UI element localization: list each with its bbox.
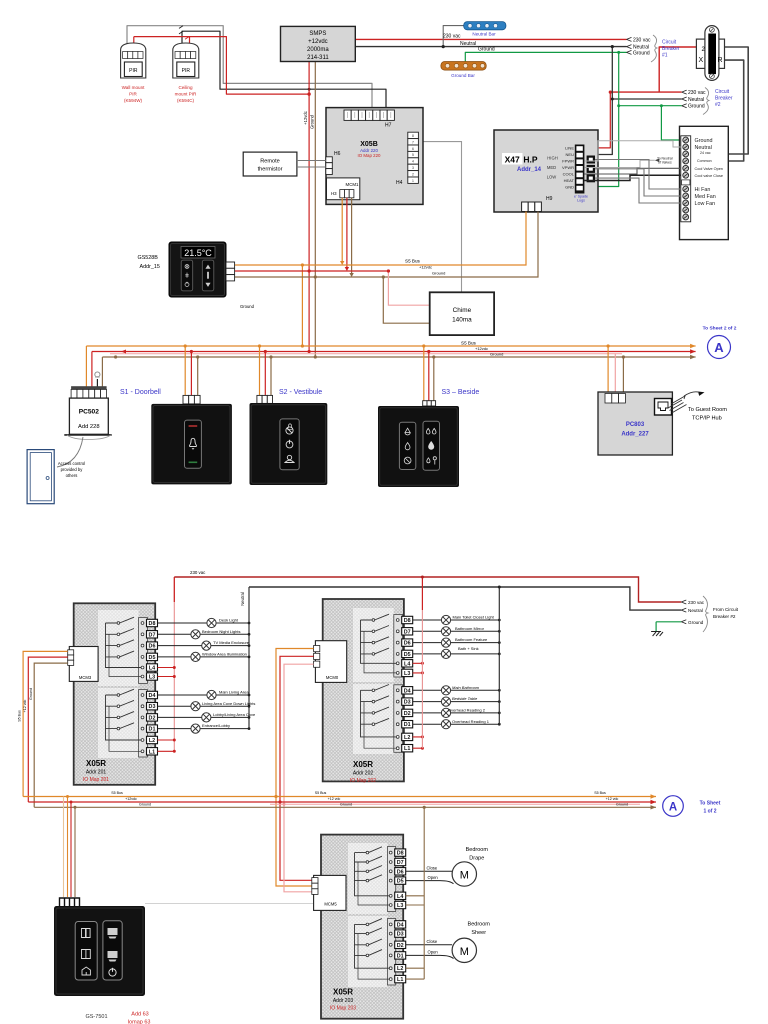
svg-text:Breaker: Breaker — [662, 46, 680, 52]
svg-text:Breaker #2: Breaker #2 — [713, 614, 736, 619]
svg-text:+12vdc: +12vdc — [475, 346, 488, 351]
svg-text:Sheer: Sheer — [471, 930, 486, 936]
svg-text:21.5°C: 21.5°C — [184, 248, 212, 258]
svg-text:+12 vdc: +12 vdc — [606, 797, 619, 801]
svg-text:X05R: X05R — [353, 760, 373, 769]
svg-text:D4: D4 — [397, 922, 404, 928]
svg-text:#2: #2 — [715, 102, 721, 108]
svg-text:Ground: Ground — [688, 104, 705, 110]
svg-text:S5 Bus: S5 Bus — [17, 710, 21, 722]
svg-text:H6: H6 — [334, 151, 341, 157]
svg-text:S5 Bus: S5 Bus — [405, 258, 421, 263]
svg-text:D8: D8 — [397, 851, 404, 857]
svg-text:D7: D7 — [149, 632, 156, 638]
svg-text:L2: L2 — [404, 735, 410, 741]
svg-text:MCM3: MCM3 — [79, 675, 92, 680]
svg-text:HIGH: HIGH — [547, 156, 557, 161]
svg-text:Bathroom Mirror: Bathroom Mirror — [455, 626, 485, 631]
svg-text:HEAT: HEAT — [564, 178, 575, 183]
svg-text:S2 - Vestibule: S2 - Vestibule — [279, 389, 322, 396]
svg-text:L3: L3 — [404, 671, 410, 677]
svg-text:Overhead Reading 1: Overhead Reading 1 — [452, 719, 490, 724]
svg-text:Neutral: Neutral — [460, 41, 476, 47]
svg-text:Ground: Ground — [432, 271, 445, 276]
svg-text:LINE: LINE — [565, 146, 574, 151]
svg-text:Add 63: Add 63 — [131, 1012, 148, 1018]
svg-text:MCM5: MCM5 — [324, 902, 337, 907]
svg-text:Ground: Ground — [490, 352, 503, 357]
svg-text:4: 4 — [412, 160, 414, 164]
svg-text:2: 2 — [412, 172, 414, 176]
svg-text:M: M — [460, 870, 469, 882]
svg-text:Hi Fan: Hi Fan — [695, 187, 711, 193]
svg-text:6: 6 — [412, 147, 414, 151]
svg-text:S5 Bus: S5 Bus — [461, 340, 477, 345]
svg-text:To Guest Room: To Guest Room — [688, 407, 727, 413]
svg-text:From Circuit: From Circuit — [713, 607, 739, 612]
svg-text:1 of 2: 1 of 2 — [703, 809, 716, 815]
svg-text:L4: L4 — [404, 661, 410, 667]
svg-text:Bedroom Night Lights: Bedroom Night Lights — [202, 629, 240, 634]
svg-text:D7: D7 — [404, 629, 411, 635]
svg-text:PC803: PC803 — [626, 422, 645, 428]
svg-text:provided by: provided by — [61, 467, 84, 472]
svg-text:D1: D1 — [404, 722, 411, 728]
svg-text:Common: Common — [697, 159, 712, 163]
svg-text:Ground: Ground — [240, 304, 255, 309]
svg-text:D7: D7 — [397, 860, 404, 866]
svg-text:Low Fan: Low Fan — [695, 201, 716, 207]
svg-text:+12vdc: +12vdc — [303, 111, 308, 125]
svg-text:MCM0: MCM0 — [326, 675, 339, 680]
svg-text:GS528B: GS528B — [138, 255, 159, 261]
svg-text:L4: L4 — [149, 666, 155, 672]
svg-text:Addr 201: Addr 201 — [86, 770, 107, 776]
svg-text:Neutral: Neutral — [688, 608, 703, 613]
svg-text:Add 228: Add 228 — [78, 424, 100, 430]
svg-text:214-311: 214-311 — [307, 55, 329, 61]
svg-text:R: R — [718, 57, 723, 64]
svg-text:Neutral: Neutral — [240, 592, 245, 606]
svg-text:S5 Bus: S5 Bus — [315, 791, 327, 795]
svg-text:Close: Close — [427, 939, 438, 944]
svg-text:L2: L2 — [149, 738, 155, 744]
svg-text:Bathroom Feature: Bathroom Feature — [455, 637, 488, 642]
svg-text:PC502: PC502 — [79, 409, 99, 416]
svg-text:Ground: Ground — [29, 688, 33, 700]
svg-text:mount PIR: mount PIR — [175, 92, 197, 97]
svg-text:D1: D1 — [149, 727, 156, 733]
svg-text:Breaker: Breaker — [715, 96, 733, 102]
svg-text:Ground: Ground — [310, 114, 315, 129]
svg-text:A: A — [669, 802, 677, 814]
svg-text:TV Media Enclosure: TV Media Enclosure — [213, 640, 250, 645]
svg-text:GND: GND — [565, 185, 574, 190]
svg-text:+12 vdc: +12 vdc — [23, 699, 27, 712]
svg-text:H7: H7 — [385, 123, 392, 129]
svg-text:Addr_15: Addr_15 — [140, 264, 160, 270]
svg-text:IO Map 203: IO Map 203 — [330, 1006, 356, 1012]
svg-text:X05R: X05R — [333, 988, 353, 997]
svg-text:Cool valve Close: Cool valve Close — [695, 174, 724, 178]
svg-text:Ground: Ground — [616, 802, 628, 806]
svg-text:L1: L1 — [149, 749, 155, 755]
svg-text:L3: L3 — [149, 675, 155, 681]
svg-text:D5: D5 — [149, 655, 156, 661]
svg-text:thermistor: thermistor — [258, 167, 283, 173]
svg-text:Ceiling: Ceiling — [178, 85, 192, 90]
svg-text:D6: D6 — [404, 641, 411, 647]
svg-text:VPWR: VPWR — [562, 165, 574, 170]
svg-text:L3: L3 — [397, 903, 403, 909]
svg-text:Ground Bar: Ground Bar — [451, 73, 475, 78]
svg-text:Main Toilet Closet Light: Main Toilet Closet Light — [453, 615, 495, 620]
svg-text:MED: MED — [547, 165, 556, 170]
svg-text:Bedroom: Bedroom — [466, 847, 489, 853]
svg-text:140ma: 140ma — [452, 317, 472, 324]
svg-text:PIR: PIR — [182, 68, 191, 74]
svg-text:Addr_14: Addr_14 — [517, 167, 542, 173]
svg-text:D3: D3 — [397, 932, 404, 938]
svg-text:Neutral Bar: Neutral Bar — [472, 32, 496, 37]
svg-text:1: 1 — [412, 179, 414, 183]
svg-text:NEU: NEU — [566, 152, 575, 157]
svg-text:(K594W): (K594W) — [124, 98, 143, 103]
svg-text:Iomap 63: Iomap 63 — [128, 1020, 151, 1024]
svg-text:D1: D1 — [397, 953, 404, 959]
svg-text:Ground: Ground — [688, 620, 704, 625]
svg-text:+12 vdc: +12 vdc — [328, 797, 341, 801]
svg-text:D4: D4 — [149, 693, 156, 699]
svg-text:L2: L2 — [397, 966, 403, 972]
svg-text:L1: L1 — [397, 977, 403, 983]
svg-text:To Sheet: To Sheet — [700, 801, 721, 807]
svg-text:Desk Light: Desk Light — [219, 618, 239, 623]
svg-text:Open: Open — [428, 875, 439, 880]
svg-text:LOW: LOW — [547, 175, 557, 180]
svg-text:L4: L4 — [397, 894, 403, 900]
svg-text:D6: D6 — [397, 869, 404, 875]
svg-text:FPWR: FPWR — [562, 159, 574, 164]
svg-text:D5: D5 — [404, 652, 411, 658]
svg-text:S3 – Beside: S3 – Beside — [442, 389, 480, 396]
svg-text:3: 3 — [412, 166, 414, 170]
svg-text:Main Living Area: Main Living Area — [219, 690, 249, 695]
svg-text:230 vac: 230 vac — [688, 600, 705, 605]
svg-text:X: X — [699, 57, 704, 64]
svg-text:230 vac: 230 vac — [633, 37, 651, 43]
svg-text:8: 8 — [412, 134, 414, 138]
svg-text:Bedside Table: Bedside Table — [452, 696, 478, 701]
svg-text:Lugs: Lugs — [577, 199, 585, 203]
svg-text:Med Fan: Med Fan — [695, 194, 716, 200]
svg-text:D3: D3 — [149, 704, 156, 710]
svg-text:Overhead Reading 2: Overhead Reading 2 — [448, 708, 486, 713]
svg-text:2000ma: 2000ma — [307, 47, 329, 53]
svg-text:Cool Valve Open: Cool Valve Open — [695, 167, 723, 171]
svg-text:+12vdc: +12vdc — [419, 265, 432, 270]
svg-text:D2: D2 — [404, 711, 411, 717]
svg-text:D8: D8 — [149, 621, 156, 627]
svg-text:H9: H9 — [546, 196, 553, 202]
svg-text:IO Map 201: IO Map 201 — [83, 777, 109, 783]
svg-text:Ground: Ground — [633, 51, 650, 57]
svg-text:S5 Bus: S5 Bus — [111, 791, 123, 795]
svg-text:D3: D3 — [404, 700, 411, 706]
svg-text:Addr_227: Addr_227 — [621, 432, 649, 438]
svg-text:PIR: PIR — [129, 68, 138, 74]
svg-text:Addr 220: Addr 220 — [360, 148, 378, 153]
svg-text:Main Bathroom: Main Bathroom — [452, 685, 480, 690]
svg-text:Living Area Cove Down Lights: Living Area Cove Down Lights — [202, 701, 255, 706]
svg-text:D4: D4 — [404, 688, 411, 694]
svg-text:230 vac: 230 vac — [688, 90, 706, 96]
svg-text:TCP/IP Hub: TCP/IP Hub — [692, 416, 722, 422]
svg-text:Lobby/Living Area Cove: Lobby/Living Area Cove — [213, 712, 256, 717]
svg-text:A: A — [714, 340, 724, 355]
svg-text:Chime: Chime — [453, 307, 472, 314]
svg-text:S5 Bus: S5 Bus — [594, 791, 606, 795]
svg-text:L1: L1 — [404, 746, 410, 752]
svg-text:Ground: Ground — [340, 802, 352, 806]
svg-text:PIR: PIR — [129, 92, 137, 97]
svg-text:Addr 203: Addr 203 — [333, 998, 354, 1004]
svg-text:SMPS: SMPS — [309, 31, 326, 37]
svg-text:Access control: Access control — [58, 461, 85, 466]
svg-text:GS-7501: GS-7501 — [85, 1014, 107, 1020]
svg-text:230 vac: 230 vac — [443, 34, 461, 40]
svg-text:COOL: COOL — [563, 172, 575, 177]
svg-text:#1: #1 — [662, 53, 668, 59]
svg-text:Ground: Ground — [478, 47, 495, 53]
svg-text:D2: D2 — [397, 943, 404, 949]
svg-text:D2: D2 — [149, 715, 156, 721]
svg-text:To Sheet 2 of 2: To Sheet 2 of 2 — [703, 326, 737, 332]
svg-text:X05R: X05R — [86, 759, 106, 768]
svg-text:H3: H3 — [331, 191, 337, 196]
svg-text:H.P: H.P — [523, 154, 538, 164]
svg-text:of Valves: of Valves — [658, 160, 672, 164]
svg-text:D5: D5 — [397, 879, 404, 885]
svg-text:Drape: Drape — [469, 856, 484, 862]
svg-text:H4: H4 — [396, 180, 403, 186]
svg-text:Circuit: Circuit — [715, 89, 730, 95]
svg-text:Bedroom: Bedroom — [468, 922, 491, 928]
svg-text:24 vac: 24 vac — [700, 151, 711, 155]
svg-text:Wall mount: Wall mount — [122, 85, 146, 90]
svg-text:others: others — [66, 473, 78, 478]
svg-text:Ground: Ground — [695, 138, 713, 144]
svg-text:Open: Open — [428, 950, 439, 955]
svg-text:Addr 202: Addr 202 — [353, 771, 374, 777]
svg-text:D6: D6 — [149, 644, 156, 650]
svg-text:+12vdc: +12vdc — [308, 39, 328, 45]
svg-text:Close: Close — [427, 866, 438, 871]
svg-text:Ground: Ground — [139, 802, 151, 806]
svg-text:5: 5 — [412, 153, 414, 157]
svg-text:IO Map 202: IO Map 202 — [350, 778, 376, 784]
svg-text:(K594C): (K594C) — [177, 98, 195, 103]
svg-text:MCM1: MCM1 — [346, 182, 359, 187]
svg-text:Bath + Sink: Bath + Sink — [458, 646, 479, 651]
svg-text:230 vac: 230 vac — [190, 570, 206, 575]
svg-text:Circuit: Circuit — [662, 40, 677, 46]
svg-text:Window Area Illumination: Window Area Illumination — [202, 652, 247, 657]
svg-text:7: 7 — [412, 140, 414, 144]
svg-text:+12vdc: +12vdc — [125, 797, 137, 801]
svg-text:D8: D8 — [404, 618, 411, 624]
svg-text:S1 - Doorbell: S1 - Doorbell — [120, 389, 161, 396]
svg-text:X47: X47 — [505, 154, 520, 164]
svg-text:Remote: Remote — [260, 159, 280, 165]
svg-text:Entrance/Lobby: Entrance/Lobby — [202, 723, 230, 728]
svg-text:Neutral: Neutral — [688, 97, 704, 103]
svg-text:IO Map 220: IO Map 220 — [358, 153, 381, 158]
svg-text:M: M — [460, 946, 469, 958]
